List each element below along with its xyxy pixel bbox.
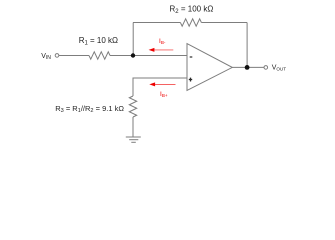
terminal VOUT	[264, 66, 268, 70]
svg-text:VOUT: VOUT	[272, 64, 287, 71]
wire feedback right vertical	[246, 23, 248, 68]
resistor R1	[89, 52, 110, 59]
op-amp minus sign	[190, 56, 193, 58]
op-amp U1	[187, 44, 232, 91]
wire feedback left vertical	[132, 23, 134, 56]
svg-text:R3 = R1//R2 = 9.1 kΩ: R3 = R1//R2 = 9.1 kΩ	[55, 104, 124, 114]
wire top rail right	[201, 22, 247, 24]
wire top rail left	[133, 22, 180, 24]
op-amp plus sign	[189, 78, 192, 82]
wire non-inverting input	[133, 78, 187, 96]
svg-text:VIN: VIN	[41, 53, 51, 61]
ground	[126, 137, 141, 142]
node B (output junction)	[245, 65, 250, 70]
current arrow IB-	[149, 48, 174, 52]
terminal VIN	[55, 54, 59, 58]
wire R3 to ground	[132, 117, 134, 137]
resistor R3	[129, 96, 136, 117]
wire R1 to inverting input	[110, 55, 187, 57]
wire op-amp output to VOUT	[232, 66, 264, 68]
node A (inverting input junction)	[131, 53, 135, 57]
wire VIN to R1	[59, 55, 89, 57]
current arrow IB+	[149, 82, 175, 86]
resistor R2	[180, 19, 201, 26]
